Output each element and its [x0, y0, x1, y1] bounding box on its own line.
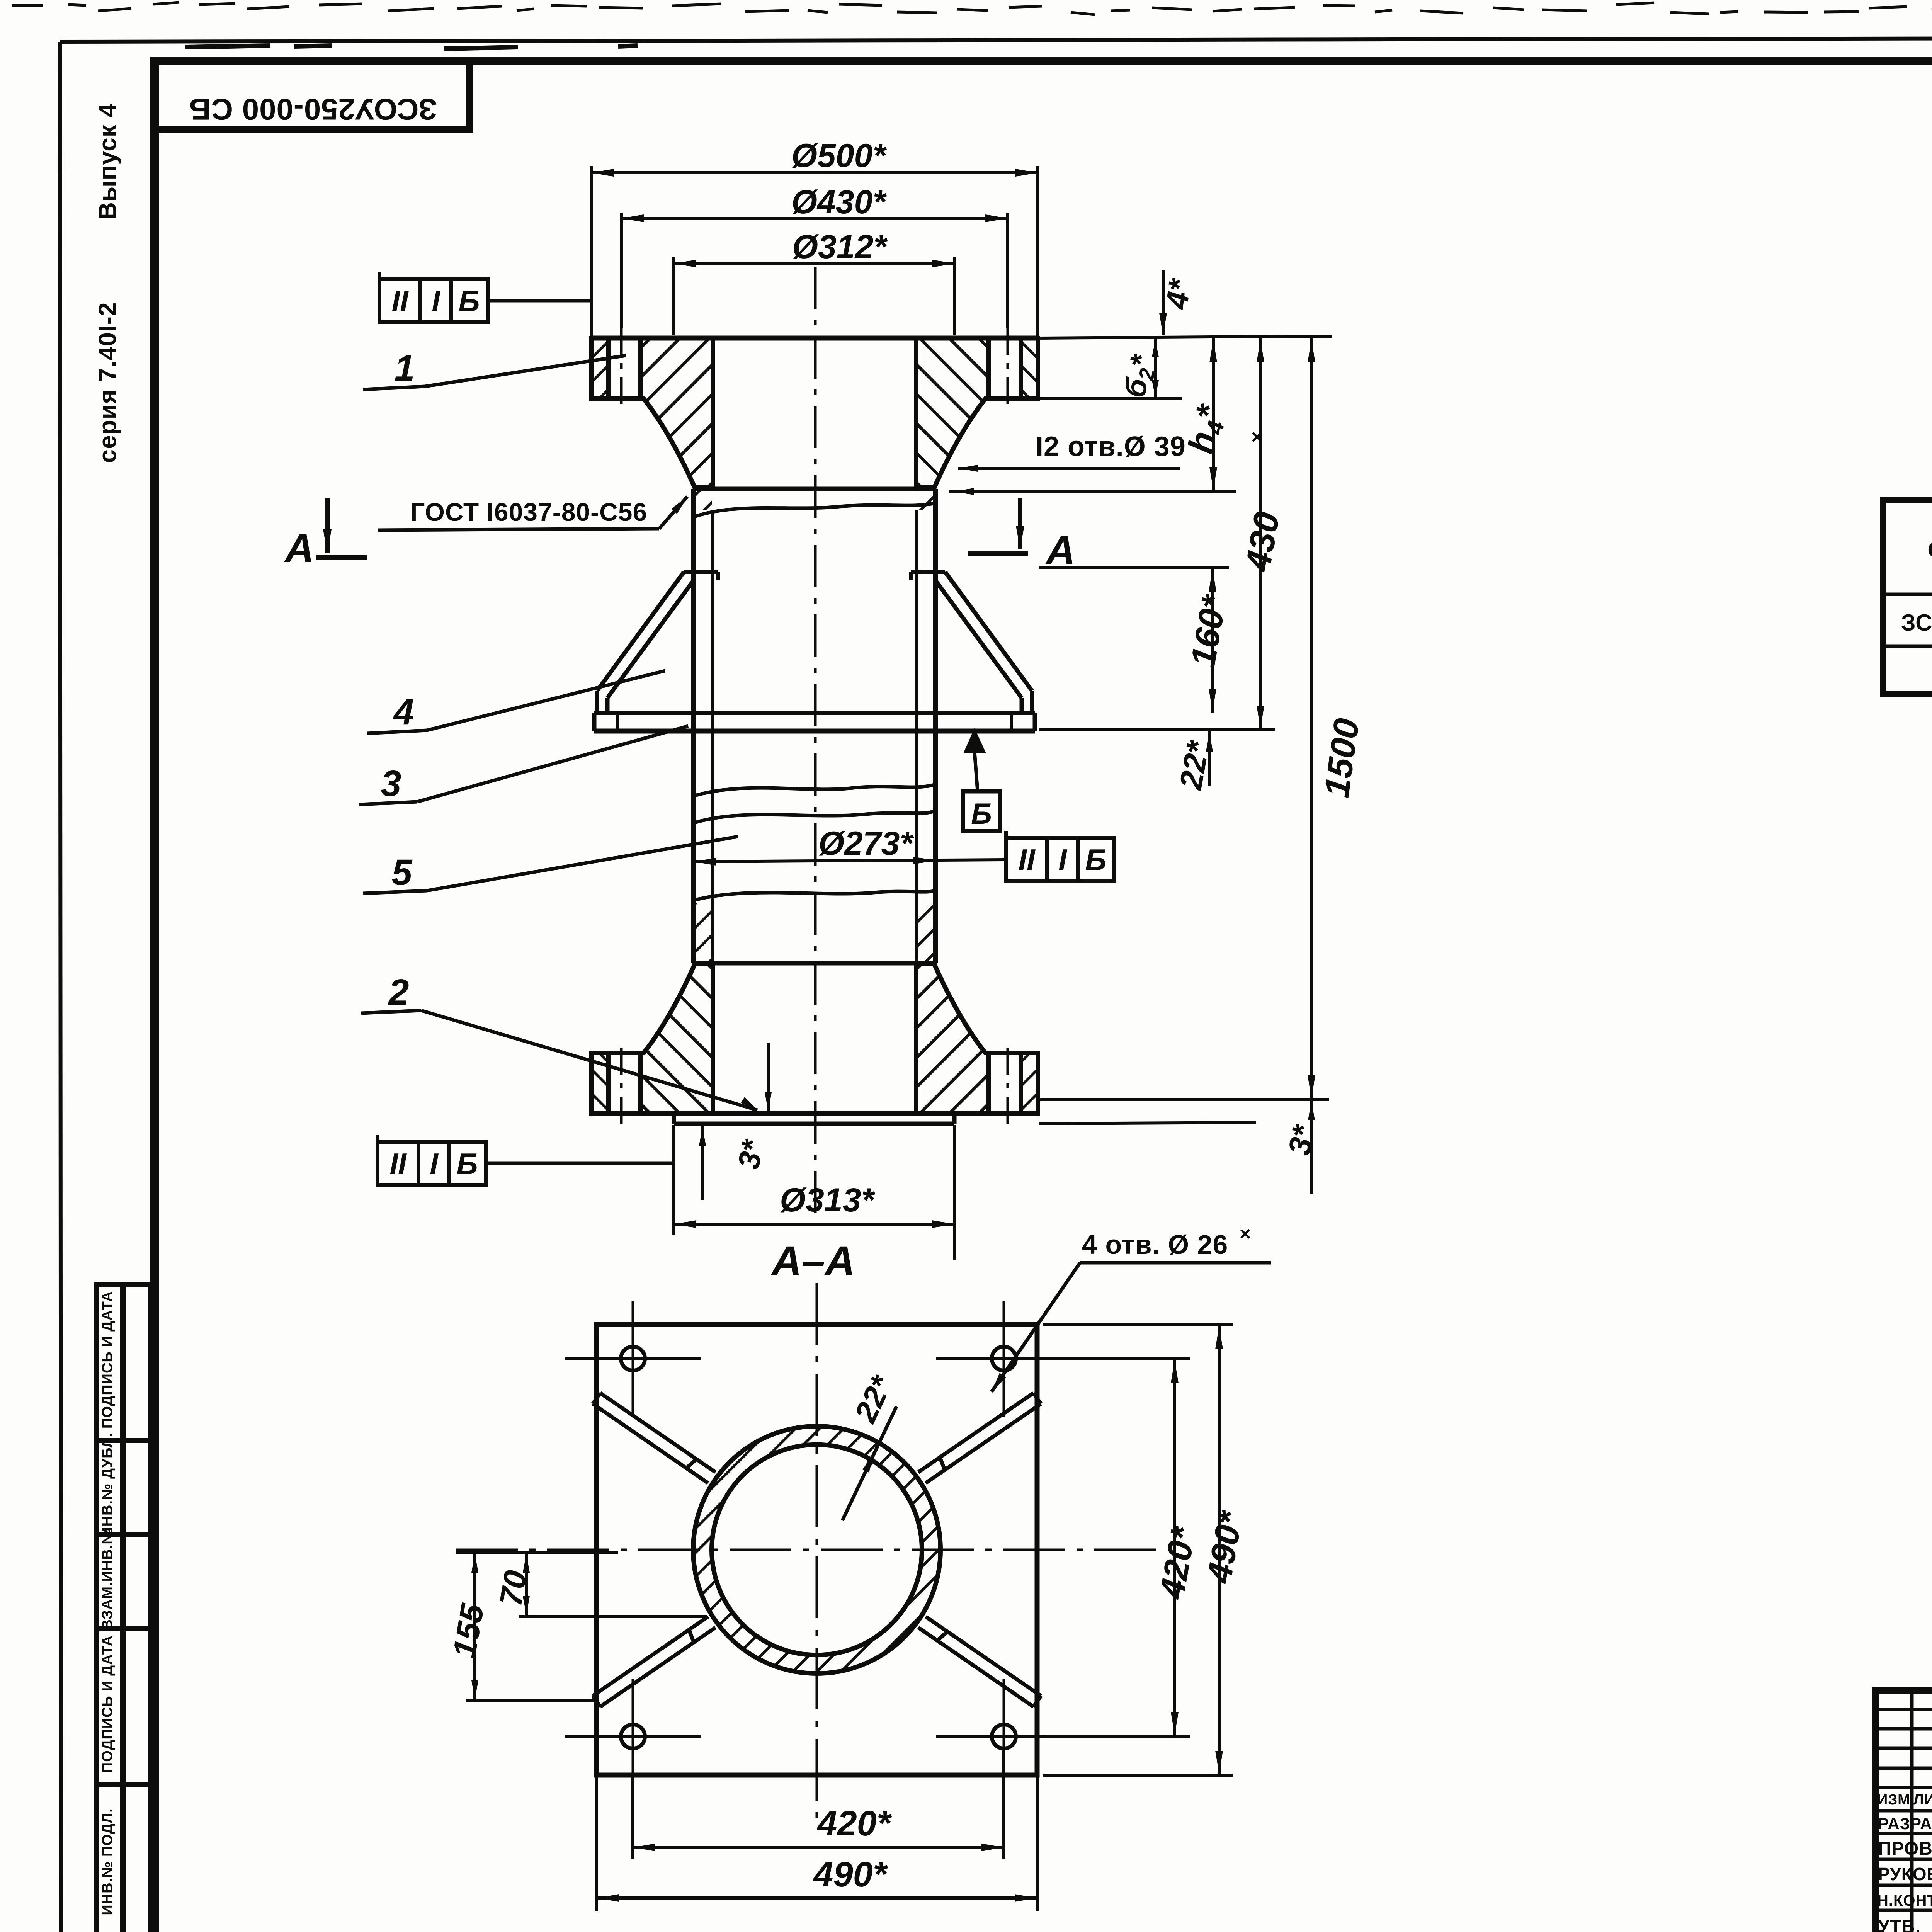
dimension 1500 (total) — [1039, 338, 1329, 1100]
gusset plan bottom-right — [918, 1617, 1041, 1707]
gusset plan top-right — [918, 1393, 1041, 1483]
svg-text:А: А — [284, 526, 314, 571]
svg-text:Выпуск 4: Выпуск 4 — [94, 103, 121, 220]
dimension b2* (flange thickness) — [1038, 338, 1182, 399]
finish box 11/1/B middle right — [1006, 831, 1114, 881]
top flange right half — [916, 328, 1038, 488]
flange outer edge — [1036, 338, 1040, 399]
svg-text:490*: 490* — [813, 1855, 888, 1894]
flange ring underside — [591, 1051, 645, 1055]
bolt hole at 1638,4494 — [621, 1725, 645, 1748]
dimension 3* (left bottom step) — [702, 1043, 768, 1200]
svg-text:Б: Б — [456, 1147, 478, 1181]
pipe wall hatch band left — [694, 903, 713, 962]
top flange left half — [591, 328, 713, 488]
weld root hatch left — [695, 490, 712, 510]
dimension O312* — [674, 257, 954, 335]
dimension 22* (plate thickness) — [1208, 731, 1211, 786]
dimension O500* — [591, 166, 1038, 338]
svg-text:ВЗАМ.ИНВ.№: ВЗАМ.ИНВ.№ — [99, 1527, 116, 1630]
flange ring underside — [985, 396, 1038, 401]
svg-text:1: 1 — [395, 348, 415, 389]
base plate square — [597, 1325, 1037, 1775]
svg-text:ИНВ.№ ПОДЛ.: ИНВ.№ ПОДЛ. — [99, 1808, 116, 1915]
central pipe ring (hatched) — [693, 1426, 940, 1673]
dimension 155 (A-A left) — [456, 1552, 618, 1701]
svg-text:серия 7.40I-2: серия 7.40I-2 — [94, 302, 121, 463]
svg-text:Ø312*: Ø312* — [792, 228, 888, 265]
flange outer edge — [1036, 1053, 1040, 1114]
bolt hole axis — [620, 328, 623, 412]
section mark A left — [316, 498, 367, 558]
svg-text:ПОДПИСЬ И ДАТА: ПОДПИСЬ И ДАТА — [99, 1291, 116, 1429]
svg-text:ЛИСТ: ЛИСТ — [1913, 1792, 1932, 1808]
svg-text:I: I — [432, 284, 440, 318]
gusset right (front view) — [911, 572, 1032, 713]
svg-text:4 отв. Ø 26: 4 отв. Ø 26 — [1082, 1230, 1228, 1260]
pipe inner wall left — [711, 510, 714, 963]
svg-text:4*: 4* — [1159, 276, 1197, 311]
dimension 490* (A-A right) — [1043, 1325, 1233, 1775]
svg-text:4: 4 — [393, 692, 414, 733]
svg-text:РУКОВ.: РУКОВ. — [1878, 1864, 1932, 1884]
section mark A right — [968, 498, 1028, 553]
bottom flange right half — [916, 964, 1038, 1124]
svg-text:А–А: А–А — [770, 1237, 855, 1284]
bottom flange bottom face — [591, 1111, 1038, 1116]
gusset plan top-left — [593, 1393, 716, 1483]
flange hub hatched section — [641, 338, 713, 488]
top flange top face — [591, 336, 1038, 341]
flange rim hatched strip — [591, 1053, 608, 1114]
svg-text:I: I — [1058, 843, 1067, 877]
bolt hole at 2598,3516 — [992, 1347, 1016, 1371]
svg-text:ИНВ.№ ДУБЛ.: ИНВ.№ ДУБЛ. — [99, 1432, 116, 1537]
flange outer edge — [589, 1053, 594, 1114]
svg-text:ПОДПИСЬ И ДАТА: ПОДПИСЬ И ДАТА — [99, 1635, 116, 1773]
svg-text:2: 2 — [388, 972, 409, 1013]
svg-text:Ø430*: Ø430* — [791, 184, 887, 221]
dimension 3* (right bottom step) — [1039, 1100, 1311, 1194]
gusset plan bottom-left — [593, 1617, 716, 1707]
svg-text:×: × — [1240, 1223, 1251, 1245]
top face extension to right — [1038, 336, 1332, 338]
finish box 11/1/B bottom left — [378, 1135, 486, 1185]
bolt hole axis — [1007, 328, 1009, 412]
svg-text:ЗСОУ250-000: ЗСОУ250-000 — [1901, 610, 1932, 636]
bolt hole at 1638,3516 — [621, 1347, 645, 1371]
svg-text:Обозначение: Обозначение — [1927, 537, 1932, 562]
bolt hole at 2598,4494 — [992, 1725, 1016, 1748]
dimension 4* (top lip) — [1162, 270, 1165, 335]
svg-text:Ø313*: Ø313* — [780, 1182, 875, 1219]
pipe wall hatch band right — [916, 903, 935, 962]
base ring plate (front view) — [594, 713, 1035, 731]
dimension 420* (A-A right) — [1020, 1359, 1190, 1736]
svg-text:А: А — [1045, 528, 1075, 573]
weld flag B with triangle symbol — [966, 732, 983, 752]
dimension 70 (A-A left) — [519, 1552, 707, 1617]
bottom raised face O313 step — [674, 1114, 954, 1124]
svg-text:ИЗМ.: ИЗМ. — [1877, 1792, 1915, 1808]
svg-text:II: II — [1018, 843, 1036, 877]
dimension 430 (right) — [1039, 338, 1275, 730]
svg-text:II: II — [389, 1147, 407, 1181]
svg-text:ГОСТ I6037-80-С56: ГОСТ I6037-80-С56 — [410, 498, 647, 526]
svg-text:420*: 420* — [816, 1804, 892, 1843]
flange ring underside — [591, 396, 645, 401]
pipe weld joint to bottom flange — [694, 961, 935, 966]
top-left stamp box ЗСОУ250-000 СБ (upside down) — [155, 61, 469, 129]
dimension 420* (A-A bottom) — [633, 1748, 1004, 1859]
svg-text:70: 70 — [493, 1568, 534, 1609]
scan dashes along very top edge — [12, 2, 1932, 15]
lower break wavy line — [694, 890, 935, 900]
dimension 160* (gusset height) — [1039, 567, 1229, 713]
dimension O313* — [674, 1125, 954, 1260]
pipe outer wall left — [691, 489, 696, 963]
bolt hole axis — [620, 1040, 623, 1124]
svg-text:5: 5 — [392, 852, 413, 893]
flange ring underside — [985, 1051, 1038, 1055]
vertical centreline of front view — [814, 267, 817, 1217]
flange hub hatched section — [641, 964, 713, 1114]
svg-text:Н.КОНТР.: Н.КОНТР. — [1877, 1892, 1932, 1909]
pipe outer wall right — [933, 489, 938, 963]
top flange weld joint line — [694, 487, 935, 491]
flange rim hatched strip — [1021, 1053, 1038, 1114]
flange rim hatched strip — [1021, 338, 1038, 399]
upper break wavy pair — [694, 784, 935, 796]
svg-text:Ø273*: Ø273* — [818, 825, 914, 862]
svg-text:I2 отв.Ø 39: I2 отв.Ø 39 — [1036, 431, 1186, 462]
flange rim hatched strip — [591, 338, 608, 399]
flange hub hatched section — [916, 338, 988, 488]
svg-text:УТВ.: УТВ. — [1878, 1917, 1921, 1932]
svg-text:ПРОВ.: ПРОВ. — [1878, 1838, 1932, 1859]
dimension 490* (A-A bottom) — [597, 1777, 1037, 1911]
weld root hatch right — [917, 490, 934, 510]
flange outer edge — [589, 338, 594, 399]
svg-text:3: 3 — [381, 763, 401, 804]
dimension O430* — [621, 213, 1008, 328]
svg-text:Ø500*: Ø500* — [791, 137, 887, 174]
bottom flange left half — [591, 964, 713, 1124]
plate centrelines — [456, 1283, 1163, 1820]
flange hub hatched section — [916, 964, 988, 1114]
finish box 11/1/B top left — [379, 272, 488, 322]
svg-text:I: I — [430, 1147, 439, 1181]
bolt hole axis — [1007, 1040, 1009, 1124]
extra dashes under top border near stamp — [185, 46, 638, 49]
svg-text:Б: Б — [971, 798, 992, 830]
svg-text:Б: Б — [1085, 843, 1106, 877]
pipe inner wall right — [915, 510, 918, 963]
svg-text:Б: Б — [458, 284, 480, 318]
dimension h4* (hub height) — [949, 338, 1236, 492]
title block labels and names — [1877, 1789, 1932, 1932]
gusset left (front view) — [597, 572, 718, 713]
left margin attribute stack — [97, 1284, 151, 1932]
svg-text:II: II — [391, 284, 409, 318]
svg-text:РАЗРАБ.: РАЗРАБ. — [1878, 1815, 1932, 1833]
wavy break line below top weld — [694, 503, 935, 517]
svg-text:ЗСОУ250-000 СБ: ЗСОУ250-000 СБ — [189, 92, 437, 126]
